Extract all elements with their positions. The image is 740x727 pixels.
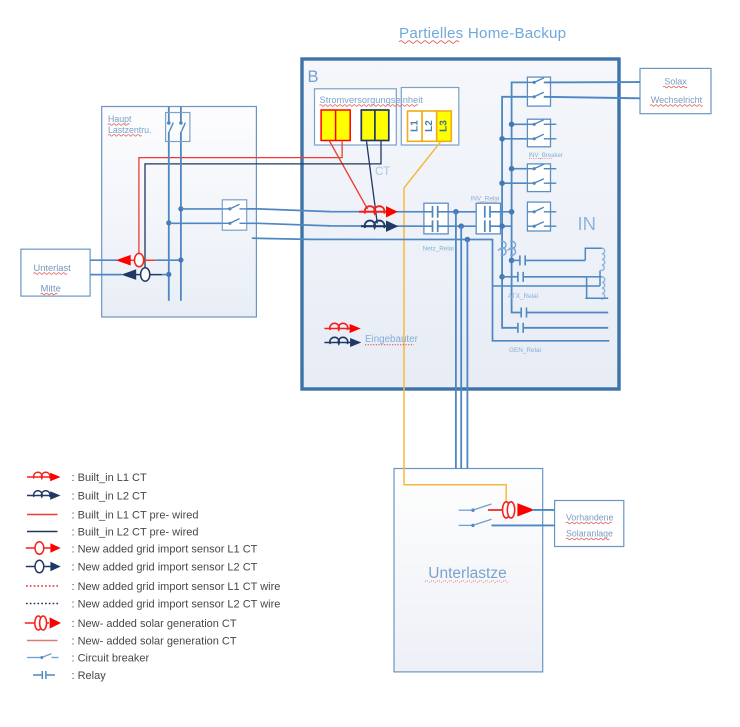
breaker 4a (527, 207, 556, 213)
svg-text:INV_Breaker: INV_Breaker (529, 153, 563, 159)
relay contact INV row2 (485, 220, 512, 232)
junction dot bus B breaker2 (509, 122, 515, 128)
relay contact ATX row2 (502, 272, 586, 282)
relay coil 2 (ATX) (585, 277, 608, 299)
fuse F1 L1 (yellow, red border) (321, 110, 350, 141)
junction dot bus A ATX2 (499, 274, 505, 280)
wire N branch to relay coil 1 (493, 271, 601, 287)
svg-text:B: B (308, 68, 319, 86)
breaker box 3 (527, 164, 550, 192)
junction dot L1 drop (453, 209, 459, 215)
wire navy diagonal from fuse F2 to built-in L2 CT (366, 141, 377, 224)
legend row12 relay (33, 670, 106, 682)
svg-text:Vorhandene: Vorhandene (566, 513, 614, 523)
arrow grid L1 (red, left) (116, 255, 131, 266)
wire red pre-wired from fuse F1 to Haupt grid CT (139, 141, 342, 254)
svg-text:Wechselricht: Wechselricht (651, 95, 703, 105)
breaker 4b (527, 222, 556, 228)
svg-text:Solax: Solax (664, 77, 687, 87)
breaker 2a (527, 120, 556, 126)
relay contact ATX row1 (512, 255, 586, 265)
built-in CT L1 (red) (359, 206, 398, 217)
wire L1 Netz to INV (448, 211, 485, 213)
svg-text:: Circuit breaker: : Circuit breaker (72, 653, 150, 665)
label Haupt Lastzentru (108, 114, 152, 136)
label INV_Breaker (529, 153, 563, 159)
new grid import sensor L1 CT (red ring) (135, 253, 144, 266)
breaker on bus 2 (179, 121, 185, 131)
svg-text:Eingebauter: Eingebauter (365, 334, 419, 345)
relay contact GEN row2 (518, 323, 523, 333)
legend row11 circuit breaker (27, 653, 149, 665)
bus A (bottom-row bus) in box B (502, 97, 608, 328)
svg-text:: New- added solar generation: : New- added solar generation CT (72, 636, 237, 648)
breaker 3a (527, 164, 556, 170)
box Vorhandene Solaranlage (555, 501, 624, 547)
junction dot bus B L1 (509, 209, 515, 215)
svg-text:Solaranlage: Solaranlage (566, 529, 613, 539)
svg-text:: Built_in L2 CT pre- wired: : Built_in L2 CT pre- wired (72, 527, 199, 539)
wire L1 from Haupt feeder to Netz relay (247, 209, 433, 212)
CT pickup on bus B (507, 241, 515, 255)
legend row6 New added grid import sensor L2 CT (26, 560, 258, 573)
svg-text:Partielles Home-Backup: Partielles Home-Backup (399, 25, 566, 42)
svg-text:: Built_in L2 CT: : Built_in L2 CT (72, 491, 147, 503)
legend row10 solar generation wire (27, 636, 237, 648)
breaker 1b (527, 92, 543, 98)
wire bus2 to Haupt breaker box row1 (181, 208, 225, 210)
svg-text:: New added grid import senso: : New added grid import sensor L2 CT wir… (72, 599, 281, 611)
box Solax Wechselricht (640, 68, 711, 113)
box Unterlastze (sub-load panel) (394, 469, 543, 672)
breaker solar row1 in Unterlastze (459, 504, 492, 512)
junction dot bus A breaker2 (499, 136, 505, 142)
junction dot N wire drop (465, 237, 471, 243)
breaker on bus 1 (167, 121, 173, 131)
breaker box feeder (Haupt mid) (222, 200, 246, 230)
wire grid row1 Unterlast to bus2 (90, 259, 181, 261)
relay contact Netz row1 (424, 206, 448, 218)
relay contact Netz row2 (424, 220, 448, 232)
junction dot bus1/feeder2 (166, 220, 171, 225)
svg-text:: New added grid import senso: : New added grid import sensor L1 CT (72, 544, 258, 556)
legend Eingebauter CT L2 (navy) (324, 337, 361, 347)
box Stromversorgungseinheit (PSU left) (315, 89, 397, 145)
bus bar 1 in Haupt (left) (168, 107, 170, 301)
wire grid row2 Unterlast to bus1 (90, 274, 169, 276)
svg-text:Stromversorgungseinheit: Stromversorgungseinheit (320, 95, 424, 105)
breaker feeder row2 (222, 219, 246, 225)
junction dot bus A breaker3 (499, 180, 505, 186)
wire L3 CT (orange) from selector down through B box to solar CT (404, 141, 506, 501)
relay coil 1 (ATX) (585, 248, 604, 270)
arrow grid L2 (navy, left) (121, 269, 136, 280)
wire L2 from Haupt feeder to Netz relay (247, 223, 433, 226)
svg-text:Lastzentru.: Lastzentru. (108, 125, 152, 135)
junction dot bus2/feeder1 (178, 206, 183, 211)
wire red to solar CT (488, 509, 502, 511)
label Stromversorgungseinheit (320, 95, 424, 106)
svg-text:Netz_Relai: Netz_Relai (423, 246, 454, 253)
wire breaker1b to Solax (544, 97, 640, 99)
breaker 3b (527, 179, 556, 185)
breaker solar row2 in Unterlastze (459, 519, 492, 527)
breaker 2b (527, 134, 556, 140)
bus bar 2 in Haupt (right) (180, 107, 182, 301)
box Haupt Lastzentrum (102, 107, 257, 318)
selector cell L2 (422, 111, 437, 141)
junction dot bus2 grid row1 (178, 257, 183, 262)
svg-text:: Built_in L1 CT pre- wired: : Built_in L1 CT pre- wired (72, 510, 199, 522)
svg-text:: New- added solar generation: : New- added solar generation CT (72, 618, 237, 630)
new-added solar generation CT (double red ring) (503, 502, 515, 518)
label Solax Wechselricht (650, 77, 703, 107)
label Unterlast Mitte (34, 263, 72, 295)
CT pickup on bus A (498, 241, 506, 255)
legend Eingebauter CT L1 (red) (324, 323, 360, 333)
wire bus B to breaker3 (512, 168, 528, 170)
svg-text:: Relay: : Relay (72, 670, 107, 682)
junction dot L2 drop (458, 223, 464, 229)
svg-text:: New added grid import senso: : New added grid import sensor L1 CT wir… (72, 581, 281, 593)
label Unterlastze (425, 565, 509, 583)
wire drop L1 to Unterlastze (455, 212, 457, 469)
wire drop L2 to Unterlastze (460, 226, 462, 468)
breaker box 4 (527, 202, 550, 231)
wire solar CT to Vorhandene box (532, 509, 555, 511)
box B (main backup box) (302, 59, 619, 389)
junction dot bus B ATX1 (509, 258, 515, 264)
wire bus B to breaker2 (512, 123, 528, 125)
built-in CT L2 (navy) (361, 221, 398, 232)
svg-text:INV_Relai: INV_Relai (471, 195, 500, 202)
selector cell L3 (selected, yellow) (437, 111, 452, 141)
legend row3 Built_in L1 CT pre-wired (27, 510, 198, 522)
wire L2 Netz to INV (448, 225, 485, 227)
breaker box main (Haupt top) (166, 113, 190, 142)
legend row1 Built_in L1 CT (27, 472, 147, 484)
wire drop N to Unterlastze (466, 240, 468, 469)
wire N (third) from Haupt to GEN loop (252, 238, 609, 341)
relay INV_Relai box (476, 203, 500, 234)
fuse F2 L2 (yellow, navy border) (361, 110, 389, 141)
svg-text:L3: L3 (439, 120, 450, 132)
relay contact INV row1 (485, 206, 512, 218)
svg-text:: Built_in L1 CT: : Built_in L1 CT (72, 472, 147, 484)
junction dot bus1 grid row2 (166, 272, 171, 277)
svg-text:Haupt: Haupt (108, 114, 132, 124)
box Unterlast Mitte (21, 249, 90, 296)
breaker feeder row1 (222, 204, 246, 210)
svg-text:Mitte: Mitte (41, 284, 61, 294)
label INV_Relai (471, 195, 500, 202)
junction dot bus A L2 (499, 223, 505, 229)
bus B (top-row bus) in box B (512, 82, 609, 312)
svg-text:CT: CT (375, 166, 390, 178)
box PSU right (L1 L2 L3 selector) (401, 88, 459, 146)
svg-text:Unterlast: Unterlast (34, 263, 72, 273)
new grid import sensor L2 CT (navy ring) (141, 268, 150, 281)
arrow solar CT (red, right) (517, 503, 534, 516)
svg-text:IN: IN (578, 213, 597, 234)
breaker 1a (527, 78, 543, 84)
svg-text:L2: L2 (424, 120, 435, 132)
wire breaker1a to Solax (544, 81, 640, 83)
relay contact GEN row1 (521, 308, 526, 318)
selector cell L1 (408, 111, 423, 141)
legend row8 CT wire L2 dotted (26, 599, 280, 611)
legend row7 CT wire L1 dotted (26, 581, 280, 593)
wire bus1 to Haupt breaker box row2 (169, 222, 225, 224)
wire row2 to Vorhandene box (492, 524, 555, 526)
breaker box 2 (INV_Breaker) (527, 119, 550, 147)
relay Netz_Relai box (424, 203, 448, 234)
svg-text:: New added grid import senso: : New added grid import sensor L2 CT (72, 562, 258, 574)
title Partielles Home-Backup (399, 25, 566, 44)
svg-text:L1: L1 (409, 120, 420, 132)
legend row5 New added grid import sensor L1 CT (26, 542, 258, 556)
wire navy pre-wired from fuse F2 to Haupt grid CT (145, 141, 381, 269)
legend row2 Built_in L2 CT (27, 491, 147, 503)
legend row4 Built_in L2 CT pre-wired (27, 527, 198, 539)
breaker box 1 (to Solax) (527, 77, 550, 106)
wire red diagonal from fuse F1 to built-in L1 CT (329, 141, 367, 210)
svg-text:GEN_Relai: GEN_Relai (509, 347, 541, 354)
label Eingebauter (365, 334, 419, 345)
wire bus A to breaker2 (502, 138, 527, 140)
legend row9 New-added solar generation CT (25, 616, 237, 630)
label Vorhandene Solaranlage (566, 513, 614, 540)
svg-text:Unterlastze: Unterlastze (428, 565, 506, 582)
junction dot bus B breaker3 (509, 166, 515, 172)
wire bus A to breaker3 (502, 182, 527, 184)
svg-text:ATX_Relai: ATX_Relai (508, 293, 538, 300)
